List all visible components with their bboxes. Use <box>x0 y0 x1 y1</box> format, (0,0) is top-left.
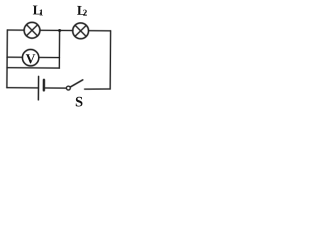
switch S pivot <box>66 86 70 90</box>
wire battery to switch <box>45 87 66 89</box>
wire between L1 and L2 <box>40 29 73 31</box>
lamp L2 <box>73 23 89 39</box>
battery long plate (+) <box>37 76 39 99</box>
wire left vertical <box>6 30 8 88</box>
node junction between L1 and L2 <box>58 29 61 32</box>
svg-text:L1: L1 <box>33 2 44 17</box>
wire switch to bottom-right corner <box>85 88 111 91</box>
svg-text:L2: L2 <box>77 3 88 18</box>
lamp L1 <box>24 22 40 38</box>
battery short plate (-) <box>43 80 45 90</box>
svg-text:V: V <box>26 51 36 66</box>
wire voltmeter left lead <box>7 56 22 58</box>
wire voltmeter right lead <box>39 56 59 58</box>
voltmeter U1 <box>22 49 39 66</box>
wire lower horizontal of voltmeter loop <box>7 67 59 69</box>
wire bottom-left to battery <box>7 87 39 89</box>
wire top-left segment <box>7 29 24 31</box>
switch S lever <box>70 80 82 87</box>
wire right vertical <box>109 31 111 89</box>
wire top-right segment <box>88 30 110 32</box>
svg-text:S: S <box>75 94 83 107</box>
wire mid vertical from lamp junction <box>58 30 60 68</box>
